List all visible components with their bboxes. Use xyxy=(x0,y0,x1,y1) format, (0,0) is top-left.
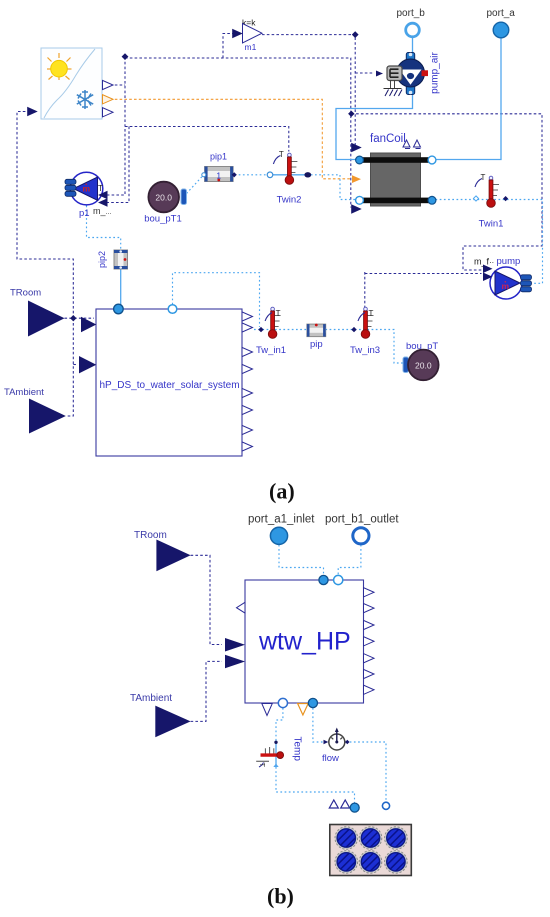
svg-text:pump_air: pump_air xyxy=(430,51,441,93)
svg-text:m_...: m_... xyxy=(93,206,111,216)
svg-text:Twin1: Twin1 xyxy=(479,219,504,230)
svg-text:..: .. xyxy=(490,256,494,265)
svg-text:TAmbient: TAmbient xyxy=(4,387,44,398)
svg-text:hP_DS_to_water_solar_system: hP_DS_to_water_solar_system xyxy=(100,380,240,391)
svg-text:pump: pump xyxy=(497,256,521,267)
svg-text:m_f: m_f xyxy=(474,257,490,267)
svg-text:T: T xyxy=(98,184,103,193)
svg-text:TRoom: TRoom xyxy=(10,288,41,299)
svg-text:port_a1_inlet: port_a1_inlet xyxy=(248,514,315,526)
svg-text:fanCoil: fanCoil xyxy=(370,133,406,145)
svg-text:20.0: 20.0 xyxy=(155,193,172,203)
svg-text:T: T xyxy=(258,763,267,768)
svg-text:port_b1_outlet: port_b1_outlet xyxy=(325,514,399,526)
svg-text:(b): (b) xyxy=(267,884,294,909)
svg-text:pip1: pip1 xyxy=(210,152,227,162)
svg-text:port_a: port_a xyxy=(487,8,516,19)
svg-text:m1: m1 xyxy=(245,42,257,52)
svg-text:port_b: port_b xyxy=(397,8,426,19)
svg-text:pip2: pip2 xyxy=(97,251,107,268)
svg-text:Twin2: Twin2 xyxy=(277,195,302,206)
svg-text:p1: p1 xyxy=(79,208,90,219)
svg-text:pip: pip xyxy=(310,339,323,350)
svg-text:Tw_in3: Tw_in3 xyxy=(350,345,380,356)
svg-text:TAmbient: TAmbient xyxy=(130,693,172,704)
svg-text:TRoom: TRoom xyxy=(134,530,167,541)
svg-text:wtw_HP: wtw_HP xyxy=(258,628,351,656)
svg-text:(a): (a) xyxy=(269,479,295,504)
svg-text:20.0: 20.0 xyxy=(415,360,432,370)
svg-text:flow: flow xyxy=(322,753,339,764)
svg-text:Temp: Temp xyxy=(292,737,303,762)
svg-text:bou_pT1: bou_pT1 xyxy=(144,214,182,225)
svg-text:Tw_in1: Tw_in1 xyxy=(256,345,286,356)
